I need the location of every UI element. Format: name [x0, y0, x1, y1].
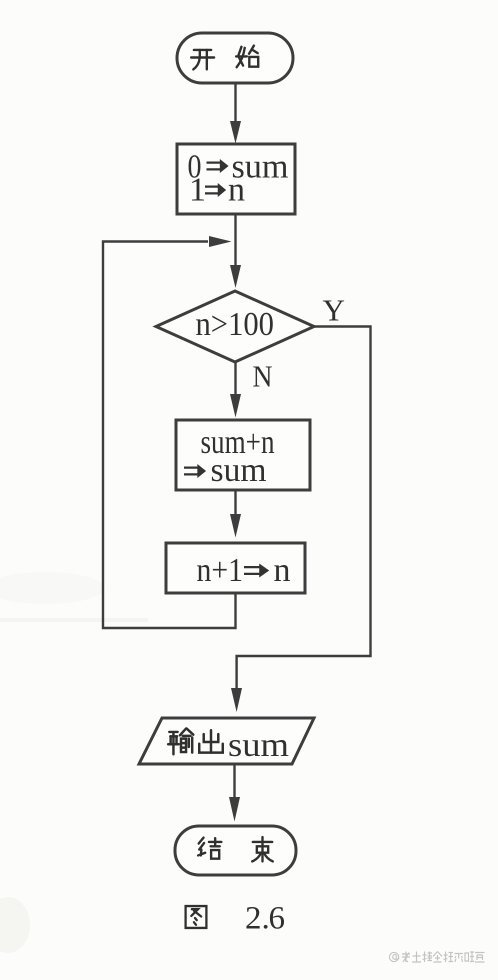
arrowhead into end	[229, 797, 240, 822]
svg-text:n: n	[228, 172, 245, 209]
arrowhead into decision	[230, 265, 241, 288]
wire init box -> decision	[234, 214, 236, 268]
svg-text:6: 6	[269, 901, 286, 937]
svg-text:N: N	[253, 359, 273, 394]
process box sum	[176, 420, 310, 490]
terminal end 结束	[175, 826, 296, 875]
svg-text:sum: sum	[228, 727, 289, 764]
svg-text:n: n	[274, 552, 291, 589]
arrowhead loop return	[209, 236, 232, 247]
wire sum box -> incr box	[234, 490, 236, 516]
wire decision N -> sum box	[234, 362, 236, 396]
scan artifact bottom-left	[0, 897, 30, 953]
label 开始	[191, 46, 258, 70]
scan artifact band left	[0, 618, 148, 622]
wire start->init box	[234, 83, 236, 128]
label 结束	[198, 837, 273, 861]
svg-text:n+1: n+1	[197, 552, 244, 589]
decision diamond n>100	[156, 291, 314, 362]
wire decision Y -> output (right branch)	[237, 327, 371, 691]
label 输出 sum	[168, 729, 223, 755]
caption 图 2.6	[186, 906, 207, 928]
process box init	[177, 144, 295, 214]
svg-text:1: 1	[189, 172, 206, 209]
svg-text:n>100: n>100	[196, 306, 275, 343]
svg-text:Y: Y	[323, 293, 345, 328]
label => sum	[184, 464, 206, 478]
wire output -> end	[233, 764, 235, 799]
arrowhead into init box	[230, 121, 241, 144]
wire loop return (left)	[103, 242, 236, 629]
arrowhead into sum box	[230, 394, 241, 418]
arrowhead into output	[231, 688, 242, 712]
svg-text:2.: 2.	[245, 901, 270, 937]
watermark @稀土掘金技术社区	[389, 952, 398, 961]
process box incr	[166, 543, 305, 593]
svg-text:sum: sum	[211, 452, 267, 489]
arrowhead into incr box	[230, 514, 241, 538]
terminal start 开始	[177, 33, 293, 83]
io parallelogram output	[139, 718, 314, 764]
